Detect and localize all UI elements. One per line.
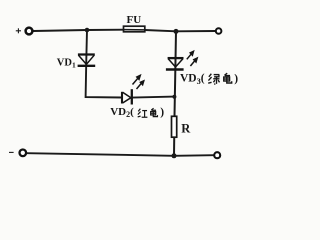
svg-text:FU: FU xyxy=(127,14,142,26)
svg-text:VD2(: VD2( xyxy=(110,106,134,119)
svg-text:): ) xyxy=(234,73,238,85)
svg-text:R: R xyxy=(181,122,191,136)
svg-text:): ) xyxy=(160,106,164,118)
svg-text:VD1: VD1 xyxy=(57,57,76,69)
svg-text:VD3(: VD3( xyxy=(180,73,205,86)
